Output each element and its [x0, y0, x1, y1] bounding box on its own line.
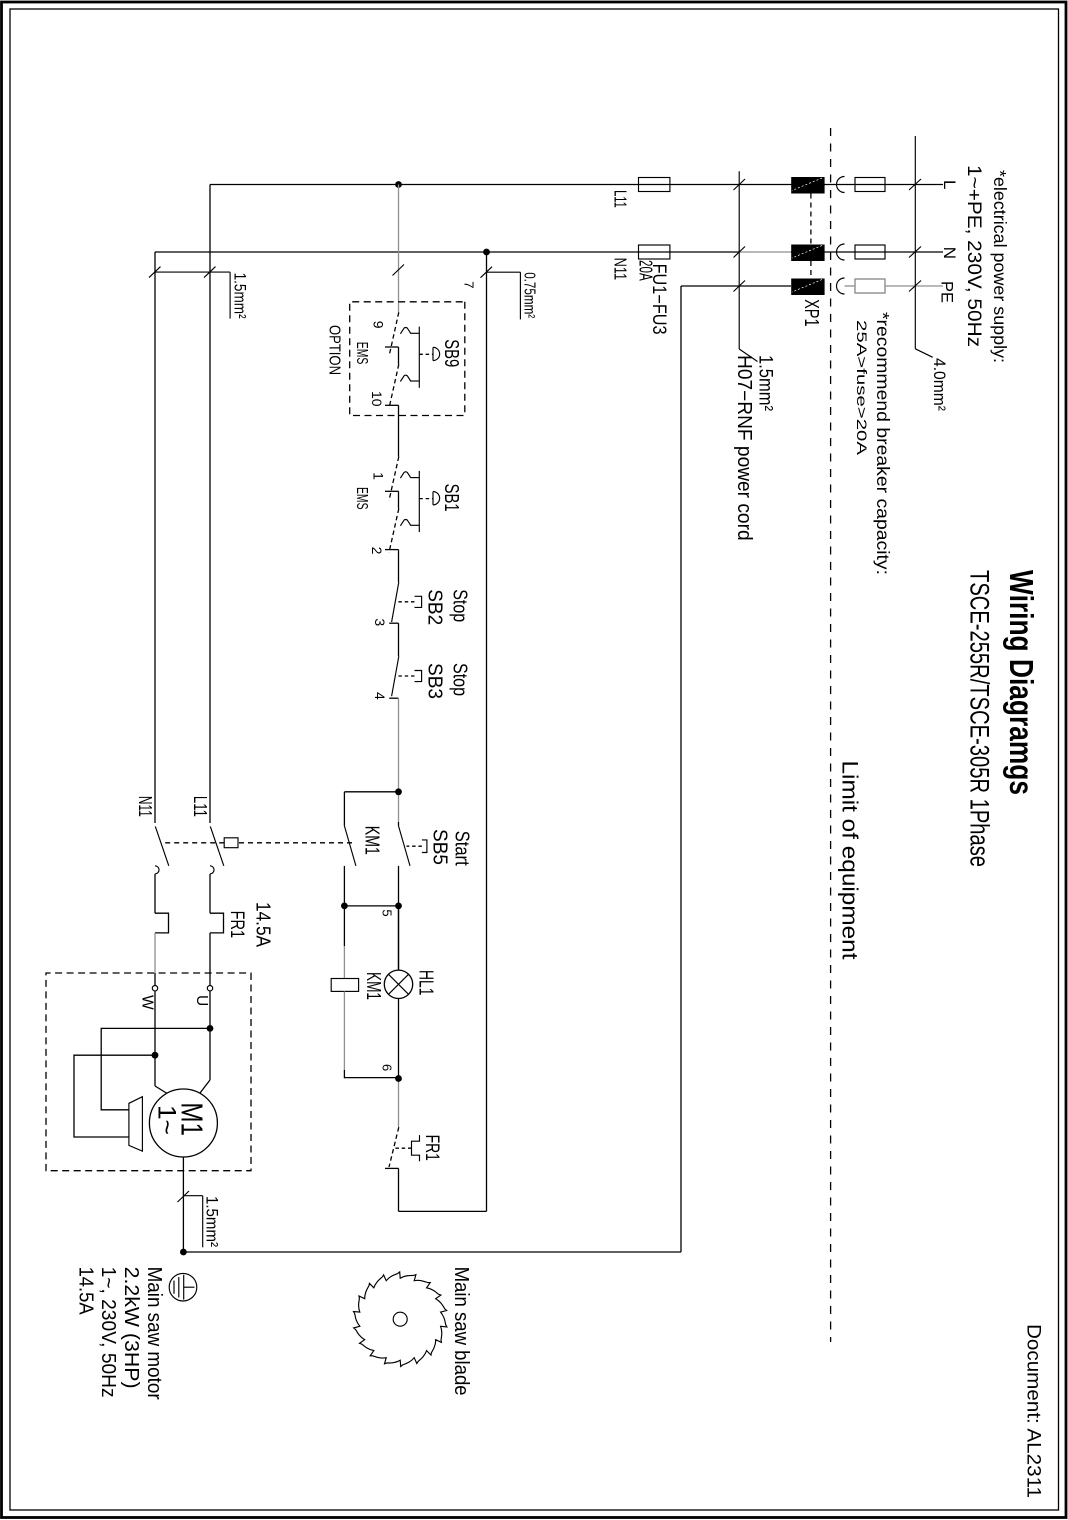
tick on N at supply leader — [909, 247, 921, 258]
svg-text:TSCE-255R/TSCE-305R 1Phase: TSCE-255R/TSCE-305R 1Phase — [965, 570, 995, 867]
wire node5 to lamp — [398, 906, 400, 970]
junction dot 5 top — [395, 903, 402, 910]
tick on N11 — [149, 267, 161, 278]
breaker fuse on PE (gray) — [855, 279, 885, 293]
KM1 holding branch horizontal — [343, 792, 345, 826]
socket arc on L — [837, 177, 845, 193]
svg-text:14.5A: 14.5A — [75, 1267, 97, 1316]
wire N supply vertical (upper) — [791, 251, 943, 253]
wire PE supply vertical gray (top) — [885, 285, 943, 287]
wire SB2 to SB3 — [398, 623, 400, 656]
saw blade — [354, 1272, 447, 1367]
svg-text:Document: AL2311: Document: AL2311 — [1023, 1324, 1045, 1498]
svg-text:14.5A: 14.5A — [252, 902, 274, 948]
return wire up — [399, 1210, 487, 1212]
svg-text:N11: N11 — [611, 258, 631, 281]
switch SB1 EMS double contact — [385, 457, 440, 553]
fuse FU1 on L — [639, 178, 670, 192]
wire L11 horizontal to contactor — [209, 185, 211, 824]
tick on return wire — [481, 267, 493, 278]
svg-text:*electrical power supply:: *electrical power supply: — [990, 170, 1010, 363]
node 6 vertical — [344, 1077, 398, 1079]
wire control line start (gray) — [398, 185, 400, 313]
wire motor to ground node — [182, 1157, 184, 1253]
wire PE gray between fuse and socket — [845, 285, 856, 287]
wire SB5 to node 5 — [398, 866, 400, 970]
socket arc on N — [837, 244, 845, 260]
fuse FU2 on N — [639, 245, 670, 259]
tick on L11 — [204, 267, 216, 278]
junction dot ground node — [180, 1249, 187, 1256]
tick on N at cord leader — [734, 247, 746, 258]
contact KM1 main N11 — [155, 826, 169, 874]
svg-text:U: U — [193, 995, 210, 1006]
wire FR1 to return corner — [398, 1168, 400, 1211]
switch SB9 EMS double contact — [385, 312, 440, 408]
svg-text:SB5: SB5 — [429, 829, 451, 865]
wire between SB9 and SB1 — [398, 405, 400, 456]
switch SB5 start NO contact — [399, 826, 427, 866]
coil KM1 — [331, 979, 358, 992]
svg-text:FR1: FR1 — [226, 911, 247, 939]
junction dot: return tap on N — [483, 249, 490, 256]
tick on PE at supply leader — [909, 281, 921, 292]
dashed box OPTION around SB9 — [350, 302, 465, 416]
svg-text:XP1: XP1 — [800, 299, 822, 327]
svg-text:N11: N11 — [135, 796, 156, 817]
start device horn — [129, 1097, 143, 1151]
bracket 1.5mm2 ground — [183, 1195, 202, 1197]
leader 4.0mm2 crossing supply — [914, 136, 916, 349]
wire L supply vertical — [210, 184, 943, 186]
wire N supply vertical gray segment — [739, 251, 791, 253]
limit of equipment dashed line — [830, 128, 832, 1342]
tick on control wire — [393, 265, 405, 276]
svg-text:Stop: Stop — [449, 663, 471, 696]
svg-text:W: W — [139, 995, 156, 1010]
junction dot branch — [395, 788, 402, 795]
dashed link between XP1 plugs — [810, 194, 812, 245]
plug XP1 block N — [791, 245, 824, 262]
junction dot 5 bottom — [341, 903, 348, 910]
contact KM1 auxiliary NO — [344, 826, 356, 866]
wire L11 after contact — [209, 874, 211, 913]
wire PE below plug — [681, 285, 791, 287]
svg-text:0.75mm²: 0.75mm² — [521, 272, 538, 318]
leader H07-RNF power cord — [738, 171, 740, 349]
svg-text:1: 1 — [371, 472, 387, 480]
svg-text:7: 7 — [462, 281, 477, 288]
bracket 0.75mm2 — [487, 271, 521, 273]
wire PE horizontal run to motor area — [680, 286, 682, 1252]
svg-text:KM1: KM1 — [362, 972, 384, 1000]
terminal W circle — [152, 986, 157, 991]
capacitor branch from U — [101, 1028, 210, 1109]
svg-text:4.0mm²: 4.0mm² — [930, 358, 949, 411]
linkage box — [224, 838, 238, 848]
node 5 vertical — [344, 905, 398, 907]
svg-text:10: 10 — [369, 391, 385, 407]
tick on L at cord leader — [734, 179, 746, 190]
wire L11 to terminal — [209, 933, 211, 986]
svg-text:L11: L11 — [611, 190, 631, 208]
svg-text:EMS: EMS — [353, 342, 370, 365]
svg-text:Main saw motor: Main saw motor — [143, 1267, 165, 1400]
svg-text:3: 3 — [372, 618, 388, 626]
junction dot U branch — [207, 1025, 214, 1032]
motor dashed enclosure — [46, 973, 251, 1171]
contact KM1 main L11 — [210, 826, 224, 874]
wire PE down to ground node — [183, 1251, 681, 1253]
svg-text:5: 5 — [380, 909, 395, 916]
svg-text:EMS: EMS — [353, 487, 370, 510]
svg-text:*recommend breaker capacity:: *recommend breaker capacity: — [873, 312, 893, 575]
svg-text:1.5mm²: 1.5mm² — [755, 355, 776, 411]
svg-text:SB3: SB3 — [424, 663, 446, 699]
junction dot: control tap on L — [395, 181, 402, 188]
svg-text:SB1: SB1 — [440, 484, 462, 512]
socket arc on PE — [837, 278, 845, 294]
KM1 holding branch down — [344, 791, 398, 793]
svg-text:1.5mm²: 1.5mm² — [231, 273, 250, 319]
svg-text:Limit of equipment: Limit of equipment — [838, 761, 863, 960]
svg-text:9: 9 — [371, 321, 387, 329]
svg-text:2.2kW (3HP): 2.2kW (3HP) — [120, 1267, 142, 1389]
junction dot 6 — [395, 1075, 402, 1082]
svg-text:6: 6 — [380, 1064, 395, 1071]
wire lamp to node 6 — [398, 999, 400, 1082]
lamp HL1 — [384, 970, 412, 998]
dashed mechanical link KM1 — [238, 842, 352, 844]
tick on PE at cord leader — [734, 281, 746, 292]
breaker fuse on N — [855, 245, 885, 259]
svg-text:1~: 1~ — [153, 1105, 181, 1135]
terminal U circle — [207, 986, 212, 991]
wire U into motor — [209, 991, 211, 1080]
svg-text:4: 4 — [372, 692, 388, 700]
tick on ground wire — [178, 1191, 190, 1202]
capacitor branch from W — [74, 1055, 155, 1137]
svg-text:KM1: KM1 — [361, 826, 383, 855]
heater FR1 on L11 — [210, 913, 224, 933]
svg-text:1~+PE, 230V, 50Hz: 1~+PE, 230V, 50Hz — [963, 165, 985, 347]
wire SB1 to SB2 — [398, 550, 400, 583]
breaker fuse on L — [855, 178, 885, 192]
wire N11 to terminal gray — [154, 933, 156, 973]
wire coil to node 6 — [343, 991, 345, 1070]
svg-text:1.5mm²: 1.5mm² — [203, 1196, 222, 1247]
plug XP1 block PE — [791, 279, 824, 296]
svg-text:L11: L11 — [190, 796, 211, 817]
svg-text:OPTION: OPTION — [326, 325, 343, 375]
tick on L at supply leader — [909, 179, 921, 190]
svg-text:HL1: HL1 — [415, 970, 437, 996]
wire N11 horizontal to contactor — [154, 252, 156, 823]
svg-text:SB9: SB9 — [440, 339, 462, 367]
return wire horizontal to N — [486, 252, 488, 1211]
svg-text:20A: 20A — [636, 260, 656, 281]
svg-text:Start: Start — [451, 831, 473, 866]
svg-text:N: N — [940, 247, 959, 259]
svg-text:Stop: Stop — [449, 589, 471, 622]
svg-text:Wiring Diagramgs: Wiring Diagramgs — [1003, 570, 1040, 795]
svg-text:PE: PE — [938, 281, 957, 303]
ground symbol — [169, 1273, 197, 1301]
svg-text:2: 2 — [369, 547, 385, 555]
switch SB2 stop NC contact — [389, 582, 421, 623]
plug XP1 block L — [791, 177, 824, 194]
wire N11 after contact — [154, 874, 156, 913]
svg-text:1~, 230V, 50Hz: 1~, 230V, 50Hz — [97, 1267, 119, 1398]
wire N supply vertical (lower) — [155, 251, 739, 253]
wire SB3 to branch dot (gray) — [398, 698, 400, 822]
svg-text:FR1: FR1 — [421, 1135, 442, 1161]
junction dot W branch — [152, 1052, 159, 1059]
heater FR1 on N11 — [155, 913, 169, 933]
svg-text:H07−RNF power cord: H07−RNF power cord — [733, 355, 755, 541]
contact FR1 overload NC — [385, 1127, 420, 1168]
svg-text:25A>fuse>20A: 25A>fuse>20A — [854, 320, 870, 456]
svg-text:SB2: SB2 — [424, 589, 446, 625]
branch wire node5 to coil (gray part) — [343, 906, 345, 946]
switch SB3 stop NC contact — [389, 656, 421, 698]
bracket 1.5mm2 on L11/N11 — [155, 271, 230, 273]
svg-text:Main saw blade: Main saw blade — [450, 1267, 472, 1396]
wire W into motor — [154, 991, 156, 1086]
wire aux to node 5 — [343, 866, 345, 906]
motor M1 circle — [149, 1089, 217, 1157]
